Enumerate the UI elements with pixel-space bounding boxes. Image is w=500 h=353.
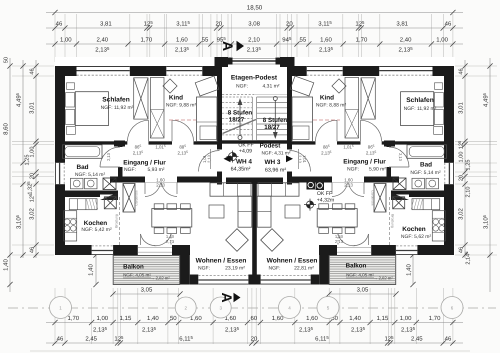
svg-text:Schlafen: Schlafen [102,97,129,104]
svg-text:18/27: 18/27 [264,124,280,131]
svg-text:Balkon: Balkon [123,264,144,271]
svg-text:1,40: 1,40 [3,259,10,271]
svg-text:23,19 m²: 23,19 m² [225,266,245,272]
svg-text:→ 2,02 m²: → 2,02 m² [373,276,393,281]
svg-text:Wohnen / Essen: Wohnen / Essen [196,258,247,265]
svg-text:2,45: 2,45 [411,336,423,343]
svg-text:50: 50 [4,57,10,63]
svg-text:Etagen-Podest: Etagen-Podest [231,75,278,82]
svg-text:Brüstung: Brüstung [391,214,395,228]
svg-text:20: 20 [251,336,258,343]
svg-text:8 Stufen: 8 Stufen [228,110,253,117]
svg-text:22,81 m²: 22,81 m² [294,266,314,272]
svg-text:Kochen: Kochen [402,226,426,233]
svg-text:NGF:: NGF: [198,266,210,272]
svg-text:WH 4: WH 4 [236,159,252,166]
svg-text:1,70: 1,70 [429,315,441,322]
svg-text:NGF:: NGF: [236,84,248,90]
svg-text:Brüstung: Brüstung [115,214,119,228]
svg-text:OK FF: OK FF [317,191,332,197]
svg-text:1,00: 1,00 [400,315,412,322]
svg-text:+4,09: +4,09 [239,149,252,155]
svg-text:Podest: Podest [260,143,281,150]
svg-text:NGF:: NGF: [269,266,281,272]
svg-text:3,02: 3,02 [458,208,465,220]
svg-text:1,15: 1,15 [120,315,132,322]
svg-text:5,93 m²: 5,93 m² [148,167,165,173]
svg-text:18,50: 18,50 [247,5,263,12]
svg-text:20: 20 [459,175,465,181]
svg-text:NGF: 9,88 m²: NGF: 9,88 m² [166,103,197,109]
svg-text:1,60: 1,60 [320,37,332,44]
svg-text:55: 55 [300,37,307,44]
svg-text:Bad: Bad [420,162,432,169]
svg-text:Wohnen / Essen: Wohnen / Essen [267,258,318,265]
svg-text:Kochen: Kochen [84,220,108,227]
svg-text:1,40: 1,40 [406,264,413,276]
svg-text:NGF: 5,14 m²: NGF: 5,14 m² [410,170,441,176]
svg-text:1,00: 1,00 [459,152,465,163]
svg-text:46: 46 [445,21,452,28]
svg-text:3,01: 3,01 [29,102,36,114]
svg-text:1,00: 1,00 [96,315,108,322]
svg-text:3,05: 3,05 [141,287,153,294]
svg-text:2,13: 2,13 [166,239,175,244]
svg-text:2,13: 2,13 [106,152,111,161]
svg-text:Kind: Kind [320,95,334,102]
svg-text:2,40: 2,40 [96,37,108,44]
svg-text:46: 46 [57,336,64,343]
svg-text:1,00: 1,00 [60,37,72,44]
svg-text:NGF: 5,62 m²: NGF: 5,62 m² [401,234,432,240]
svg-text:1,15: 1,15 [377,315,389,322]
svg-text:2,13: 2,13 [344,183,353,188]
svg-text:18/27: 18/27 [229,117,245,124]
svg-text:46: 46 [56,21,63,28]
svg-text:NGF: 4,31 m²: NGF: 4,31 m² [261,151,290,157]
svg-text:46: 46 [30,68,36,74]
svg-text:NGF: 4,05 m²: NGF: 4,05 m² [346,273,374,278]
svg-text:2,13: 2,13 [335,239,344,244]
svg-text:A: A [219,292,235,302]
svg-text:1,70: 1,70 [356,37,368,44]
svg-text:WH 3: WH 3 [265,159,281,166]
svg-text:8,60: 8,60 [3,123,10,135]
svg-text:3,81: 3,81 [100,21,112,28]
svg-text:46: 46 [30,247,36,253]
svg-text:46: 46 [445,336,452,343]
svg-text:Garderobe: Garderobe [135,190,139,205]
svg-text:46: 46 [459,68,465,74]
svg-text:2,13: 2,13 [298,155,303,164]
svg-text:Eingang / Flur: Eingang / Flur [343,159,386,166]
svg-text:64,35m²: 64,35m² [231,167,251,173]
svg-text:63,96 m²: 63,96 m² [265,168,286,174]
svg-text:1,40: 1,40 [349,315,361,322]
svg-text:1,60: 1,60 [306,315,318,322]
svg-text:2,40: 2,40 [400,37,412,44]
svg-text:3,08: 3,08 [248,21,260,28]
svg-text:NGF: 4,05 m²: NGF: 4,05 m² [123,273,151,278]
svg-text:1,25: 1,25 [466,160,472,171]
svg-text:20: 20 [30,173,36,179]
svg-text:60: 60 [251,315,258,322]
svg-text:Bad: Bad [76,164,88,171]
svg-text:1,40: 1,40 [147,315,159,322]
svg-text:1,60: 1,60 [176,37,188,44]
svg-text:1,70: 1,70 [141,37,153,44]
svg-text:5,90 m²: 5,90 m² [369,167,386,173]
svg-text:2,13: 2,13 [156,183,165,188]
svg-text:NGF: 11,92 m²: NGF: 11,92 m² [101,105,134,111]
svg-text:8 Stufen: 8 Stufen [263,117,288,124]
svg-text:+4,32m: +4,32m [317,198,334,204]
svg-text:2,13: 2,13 [398,153,403,162]
svg-text:20: 20 [286,21,293,28]
svg-text:2,10: 2,10 [466,187,472,198]
svg-text:Kind: Kind [169,95,183,102]
svg-text:A: A [220,41,236,51]
svg-text:NGF:: NGF: [124,167,136,173]
svg-text:NGF: 5,14 m²: NGF: 5,14 m² [75,172,106,178]
svg-text:NGF: 5,42 m²: NGF: 5,42 m² [81,227,112,233]
svg-text:NGF: 11,92 m²: NGF: 11,92 m² [404,106,437,112]
svg-text:3,02: 3,02 [29,208,36,220]
svg-text:1,00: 1,00 [436,37,448,44]
svg-text:2,45: 2,45 [85,336,97,343]
svg-text:2,13: 2,13 [207,154,212,163]
svg-text:1,40: 1,40 [88,264,95,276]
svg-text:NGF: 8,88 m²: NGF: 8,88 m² [316,103,347,109]
svg-text:1,70: 1,70 [67,315,79,322]
svg-text:4,31 m²: 4,31 m² [263,84,280,90]
svg-text:55: 55 [202,37,209,44]
svg-text:Garderobe: Garderobe [371,190,375,205]
svg-text:3,81: 3,81 [396,21,408,28]
svg-text:Balkon: Balkon [346,263,367,270]
svg-text:Eingang / Flur: Eingang / Flur [123,160,166,167]
svg-text:3,05: 3,05 [357,287,369,294]
svg-text:3,01: 3,01 [458,102,465,114]
svg-text:1,25: 1,25 [25,155,31,166]
svg-text:→ 2,02 m²: → 2,02 m² [150,276,170,281]
svg-text:Schlafen: Schlafen [406,97,433,104]
svg-text:NGF:: NGF: [347,167,359,173]
svg-text:20: 20 [215,21,222,28]
svg-text:2,10: 2,10 [248,37,260,44]
svg-text:50: 50 [170,315,177,322]
